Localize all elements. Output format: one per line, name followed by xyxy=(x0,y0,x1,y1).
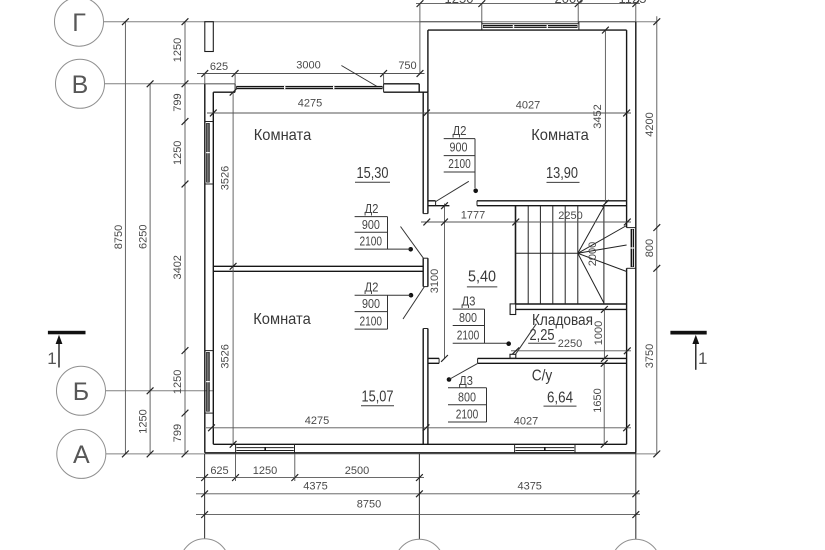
svg-text:3100: 3100 xyxy=(429,269,441,293)
bottom window left jamb 2 xyxy=(294,444,296,453)
dim line interior bottom 4275/4027 xyxy=(206,427,631,429)
bottom window left sash xyxy=(236,447,293,449)
stair riser 2 xyxy=(539,206,541,304)
svg-text:2100: 2100 xyxy=(359,234,382,249)
middle wall stub between doors xyxy=(422,258,424,286)
svg-text:625: 625 xyxy=(210,465,228,477)
dim line 3100 xyxy=(444,204,446,359)
grid bubble Б xyxy=(57,366,106,415)
svg-text:799: 799 xyxy=(172,424,184,442)
svg-text:3402: 3402 xyxy=(172,255,184,279)
wall Г outer right seg xyxy=(578,21,636,23)
dim line 1650 xyxy=(603,363,605,444)
svg-text:800: 800 xyxy=(458,389,476,404)
section mark 1 left arrow xyxy=(58,341,60,368)
stair mid line xyxy=(516,252,578,254)
svg-text:2250: 2250 xyxy=(558,338,582,350)
svg-text:1777: 1777 xyxy=(461,210,485,222)
dim line 2250 Кладовая xyxy=(511,350,631,352)
right wall outer face xyxy=(635,22,637,453)
door Д3 Кладовая leaf xyxy=(516,324,537,354)
grid bubble Г xyxy=(55,0,104,46)
wall top-right-part left face xyxy=(427,30,429,92)
svg-text:5,40: 5,40 xyxy=(468,269,496,286)
bottom wall outer face xyxy=(205,452,636,454)
door Д3 Кладовая jamb xyxy=(510,354,516,358)
svg-text:800: 800 xyxy=(459,310,477,325)
bottom wall inner face xyxy=(213,443,626,445)
window left-upper sash xyxy=(206,123,210,183)
svg-text:1250: 1250 xyxy=(172,370,184,394)
svg-text:2100: 2100 xyxy=(456,407,479,422)
svg-text:В: В xyxy=(72,71,89,99)
wall В outer face left seg xyxy=(205,83,235,85)
door Д3 С/у hinge dot xyxy=(447,377,452,382)
window 2000 jamb right xyxy=(578,22,580,30)
bottom window right jamb 1 xyxy=(514,444,516,453)
svg-text:799: 799 xyxy=(172,93,184,111)
С/у top wall xyxy=(478,357,627,359)
svg-text:1250: 1250 xyxy=(138,409,150,433)
С/у top wall cap piece xyxy=(428,357,439,359)
door label Д2 box (room 13,90) xyxy=(444,138,475,140)
stair riser 4 xyxy=(564,206,566,304)
dim chain line left xyxy=(184,22,186,454)
left wall window jamb 2 xyxy=(205,183,214,185)
stair riser 5 (hub line) xyxy=(577,206,579,304)
svg-text:Д2: Д2 xyxy=(365,280,379,295)
stair winder ray 5 xyxy=(578,253,604,303)
extension x204.8 short xyxy=(204,74,206,84)
section mark 1 left bar xyxy=(48,331,86,335)
door Д2 room 13,90 hinge dot xyxy=(473,189,478,194)
section mark 1 right bar xyxy=(670,331,706,335)
svg-text:4275: 4275 xyxy=(298,98,322,110)
right wall window jamb top xyxy=(627,227,636,229)
dim line interior left 3526/3526 xyxy=(232,92,234,444)
svg-text:Комната: Комната xyxy=(531,127,589,144)
svg-text:2100: 2100 xyxy=(359,314,382,329)
svg-text:900: 900 xyxy=(362,296,380,311)
svg-text:4027: 4027 xyxy=(516,99,540,111)
axis 1 extension line xyxy=(204,454,206,539)
door label Д3 box (С/у) xyxy=(448,387,487,389)
svg-text:Д3: Д3 xyxy=(459,373,473,388)
window 3000 jamb right xyxy=(383,84,385,92)
svg-text:Комната: Комната xyxy=(254,127,312,144)
window 2000 head line xyxy=(482,23,578,25)
extension line x578.2 xyxy=(577,4,579,24)
wall stub top-left xyxy=(205,22,214,52)
svg-text:Д3: Д3 xyxy=(462,294,476,309)
svg-text:С/у: С/у xyxy=(532,368,553,385)
svg-text:А: А xyxy=(73,441,90,469)
svg-text:2100: 2100 xyxy=(457,328,480,343)
svg-text:Д2: Д2 xyxy=(365,201,379,216)
extension x235.5 bottom xyxy=(235,453,237,481)
wall В outer face right seg xyxy=(384,83,420,85)
svg-text:6250: 6250 xyxy=(138,224,150,248)
dim line 625/3000/750 xyxy=(197,73,425,75)
svg-text:4375: 4375 xyxy=(303,480,327,492)
door label Д3 box (Кладовая) xyxy=(453,308,485,310)
svg-text:Д2: Д2 xyxy=(453,123,467,138)
grid bubble axis 2 (cut) xyxy=(395,539,444,550)
stair left edge xyxy=(515,206,517,304)
window 2000 sash xyxy=(483,25,578,28)
left wall window jamb 1 xyxy=(205,121,214,123)
svg-text:1125: 1125 xyxy=(619,0,647,6)
door Д2 upper-left leaf xyxy=(401,227,424,259)
grid bubble axis 1 (cut) xyxy=(180,539,229,550)
stair winder ray 4 xyxy=(578,253,627,271)
svg-text:3526: 3526 xyxy=(220,166,232,190)
svg-text:900: 900 xyxy=(362,217,380,232)
window 3000 leader diagonal xyxy=(341,66,380,89)
svg-text:15,07: 15,07 xyxy=(362,389,394,406)
wall В inner face left seg xyxy=(213,91,235,93)
extension line x481.8 xyxy=(481,4,483,24)
middle wall lower segment xyxy=(422,329,424,445)
window 800 right sash xyxy=(631,229,635,267)
axis 2 extension line xyxy=(418,454,420,539)
door label Д2 box (lower left) xyxy=(355,294,411,296)
wall Г outer left seg xyxy=(420,21,482,23)
door Д2 room 13,90 leaf xyxy=(436,181,469,201)
svg-text:800: 800 xyxy=(644,239,656,257)
dim line 1777/2250 xyxy=(421,221,631,223)
left wall window jamb 4 xyxy=(205,412,214,414)
grid axis В line xyxy=(105,83,205,85)
grid bubble В xyxy=(56,59,105,108)
Кладовая top wall (under stair) xyxy=(516,303,627,305)
left wall inner face xyxy=(212,92,214,444)
svg-text:2100: 2100 xyxy=(448,156,471,171)
window left-lower sash xyxy=(206,352,210,412)
svg-text:2500: 2500 xyxy=(345,465,369,477)
grid axis Г line xyxy=(104,21,657,23)
svg-text:1250: 1250 xyxy=(172,141,184,165)
svg-text:625: 625 xyxy=(210,61,228,73)
section mark 1 right arrow xyxy=(695,341,697,370)
svg-text:1650: 1650 xyxy=(592,388,604,412)
dim line 6250 (left, vertical) xyxy=(149,84,151,454)
grid bubble axis 3 (cut) xyxy=(611,539,660,550)
svg-text:Комната: Комната xyxy=(253,311,311,328)
Кладовая wall end post xyxy=(510,304,516,315)
stair winder ray 3 xyxy=(578,245,627,253)
extension x294.8 bottom xyxy=(294,453,296,481)
wall В inner face right seg xyxy=(384,91,428,93)
extension line x635.8 xyxy=(635,4,637,22)
room 13,90 bottom wall cap piece xyxy=(428,200,436,202)
dim line interior top 4275/4027 xyxy=(207,112,631,114)
window 3000 jamb left xyxy=(234,84,236,92)
svg-text:6,64: 6,64 xyxy=(547,390,573,407)
svg-text:2000: 2000 xyxy=(555,0,584,6)
svg-text:8750: 8750 xyxy=(113,225,125,249)
stair riser 3 xyxy=(552,206,554,304)
dim line 8750 (left, vertical) xyxy=(124,22,126,454)
svg-text:3750: 3750 xyxy=(644,344,656,368)
svg-text:Г: Г xyxy=(72,9,86,37)
bottom window right jamb 2 xyxy=(574,444,576,453)
door Д3 Кладовая hinge dot xyxy=(506,341,511,346)
svg-text:13,90: 13,90 xyxy=(546,165,578,182)
svg-text:1000: 1000 xyxy=(593,321,605,345)
middle wall upper segment xyxy=(422,92,424,213)
grid axis Б line xyxy=(106,390,214,392)
svg-text:4275: 4275 xyxy=(305,415,329,427)
dim line 1000 xyxy=(603,309,605,358)
dim line bottom 4375+4375 xyxy=(196,493,640,495)
stair riser 1 xyxy=(527,206,529,304)
svg-text:1250: 1250 xyxy=(172,38,184,62)
svg-text:15,30: 15,30 xyxy=(357,165,389,182)
wall Г inner face xyxy=(428,29,627,31)
window 3000 sash xyxy=(236,86,382,89)
svg-text:4375: 4375 xyxy=(517,480,541,492)
stair winder ray 1 xyxy=(578,207,604,254)
door Д2 lower-left hinge dot xyxy=(409,293,414,298)
door Д2 upper-left hinge dot xyxy=(408,247,413,252)
svg-text:2250: 2250 xyxy=(558,210,582,222)
door label Д2 box (upper left) xyxy=(355,216,388,218)
door Д2 lower-left leaf xyxy=(403,287,424,319)
grid axis А line xyxy=(106,453,657,455)
svg-text:2,25: 2,25 xyxy=(530,327,555,344)
svg-text:1: 1 xyxy=(47,349,56,368)
stair landing edge xyxy=(603,206,605,304)
dim line top 1250/2000/1125 xyxy=(416,3,640,5)
wall В right end cap xyxy=(418,84,420,92)
extension x383.6 short xyxy=(383,74,385,84)
svg-text:2000: 2000 xyxy=(587,242,599,266)
svg-text:1250: 1250 xyxy=(445,0,474,6)
dim line bottom 8750 xyxy=(196,514,640,516)
bottom window right sash xyxy=(515,447,574,449)
grid bubble А xyxy=(57,429,106,478)
window 2000 jamb left xyxy=(481,22,483,30)
svg-text:Б: Б xyxy=(73,378,89,406)
room 13,90 bottom wall xyxy=(477,200,627,202)
stair winder ray 2 xyxy=(578,226,627,254)
svg-text:3000: 3000 xyxy=(296,59,320,71)
dim line right chain 4200/800/3750 xyxy=(656,16,658,454)
svg-text:3452: 3452 xyxy=(592,104,604,128)
svg-text:8750: 8750 xyxy=(357,499,381,511)
bottom window left jamb 1 xyxy=(235,444,237,453)
svg-text:1: 1 xyxy=(698,349,707,368)
door Д3 С/у leaf xyxy=(449,364,477,380)
dim line bottom chain 625/1250/2500 xyxy=(196,477,424,479)
left wall outer face xyxy=(204,84,206,453)
extension x235.1 short xyxy=(234,74,236,84)
right wall inner face upper xyxy=(626,30,628,228)
svg-text:4027: 4027 xyxy=(514,416,538,428)
svg-text:750: 750 xyxy=(398,60,416,72)
svg-text:3526: 3526 xyxy=(220,344,232,368)
svg-text:900: 900 xyxy=(450,139,468,154)
middle horizontal wall between left rooms xyxy=(213,265,423,267)
right wall inner face lower xyxy=(626,268,628,444)
dim line 3452 xyxy=(604,30,606,203)
right wall window jamb bottom xyxy=(627,267,636,269)
extension line x420 xyxy=(419,4,421,74)
left wall window jamb 3 xyxy=(205,350,214,352)
svg-text:1250: 1250 xyxy=(253,465,277,477)
svg-text:4200: 4200 xyxy=(644,112,656,136)
axis 3 extension line xyxy=(635,453,637,539)
